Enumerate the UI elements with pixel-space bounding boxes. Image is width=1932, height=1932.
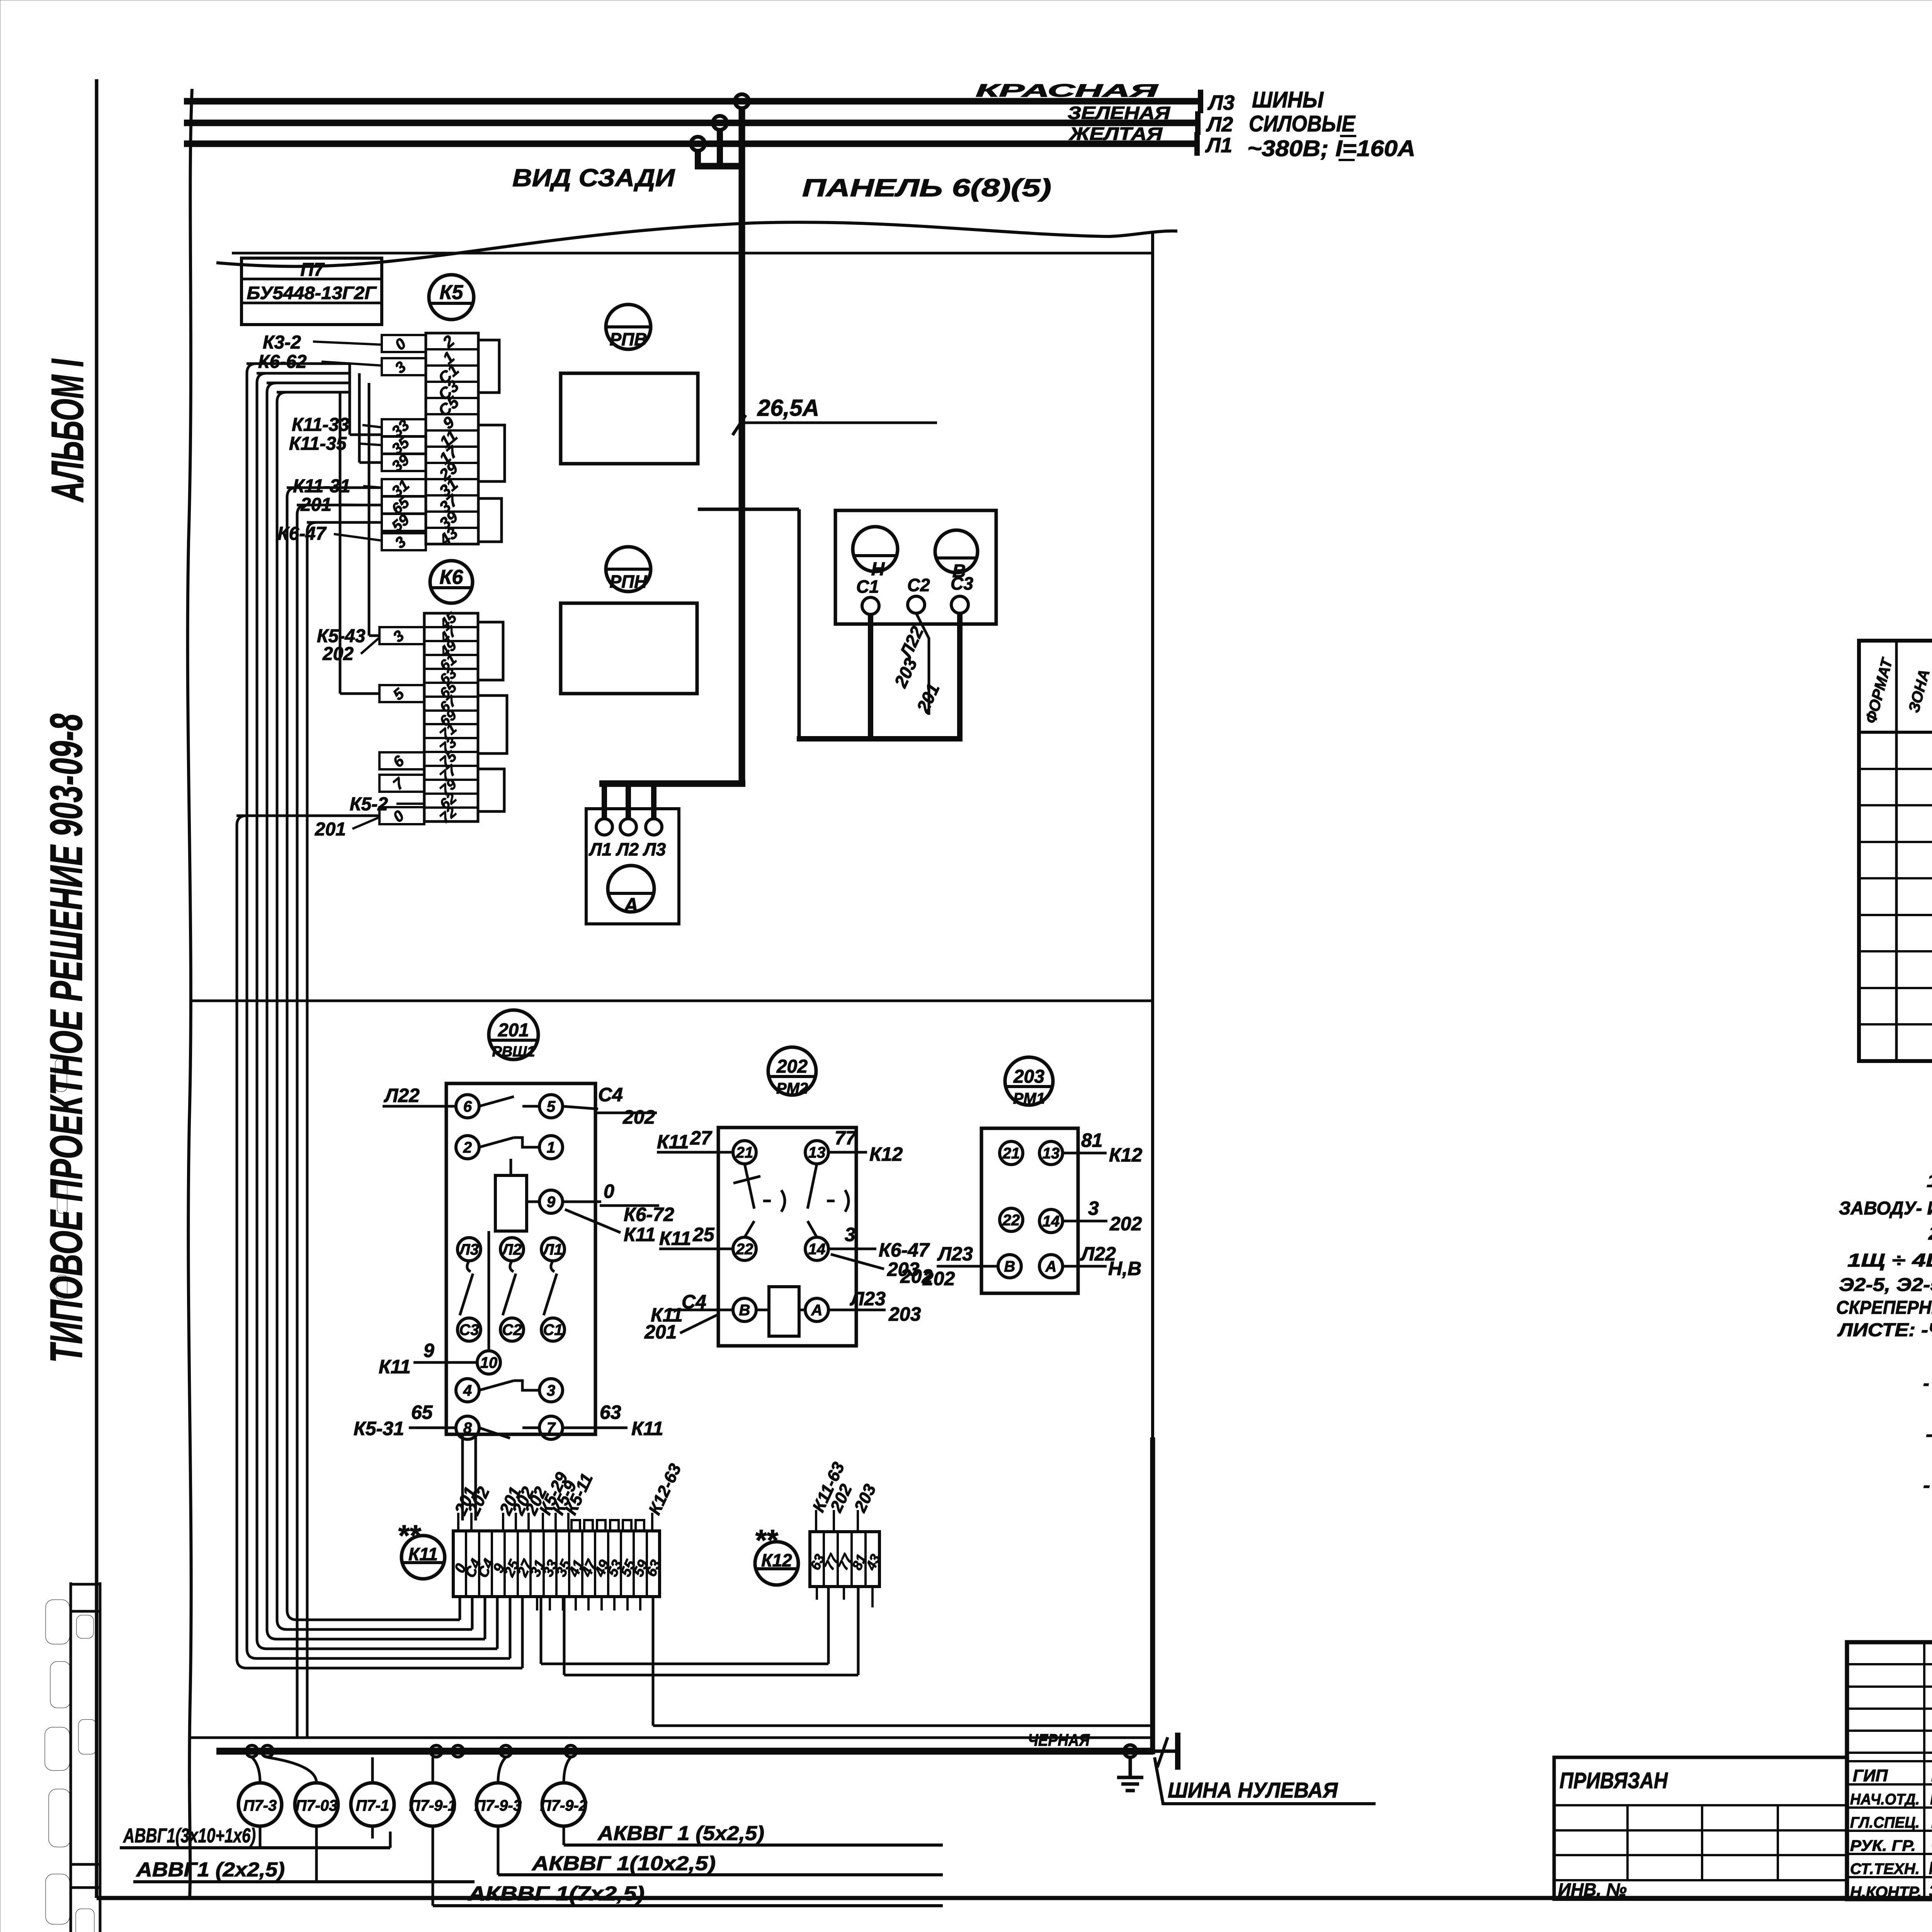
svg-text:81: 81 <box>1081 1129 1103 1151</box>
svg-text:РУК. ГР.: РУК. ГР. <box>1850 1837 1916 1854</box>
panel right edge <box>1151 231 1154 1754</box>
K6 stack labels <box>315 626 424 840</box>
svg-text:РВШ1: РВШ1 <box>492 1044 535 1060</box>
bus L3 <box>184 80 1235 114</box>
RM2 coil <box>769 1287 799 1336</box>
svg-text:14: 14 <box>1043 1213 1060 1230</box>
svg-text:К12-63: К12-63 <box>645 1461 685 1518</box>
null bus label <box>1155 1757 1376 1804</box>
svg-text:Н,В: Н,В <box>1108 1258 1141 1279</box>
svg-text:ГИП: ГИП <box>1853 1766 1888 1785</box>
svg-text:ИНВ. №: ИНВ. № <box>1558 1879 1627 1900</box>
svg-text:К6-72: К6-72 <box>624 1204 674 1225</box>
K11 top stubs <box>571 1520 644 1531</box>
svg-text:К6-62: К6-62 <box>258 352 307 372</box>
svg-text:203: 203 <box>888 1303 921 1325</box>
svg-text:Л1: Л1 <box>1205 134 1232 157</box>
svg-text:С2: С2 <box>907 575 930 595</box>
RVSh1 pins <box>456 1095 565 1439</box>
svg-text:63: 63 <box>600 1401 621 1423</box>
relay RVSh1 ref circle 201 <box>489 1010 538 1060</box>
svg-text:А: А <box>623 894 638 917</box>
stamp small grid <box>1847 1642 1932 1899</box>
stamp outer <box>1847 1642 1932 1899</box>
wires RVSh1 to K11 labels <box>463 1434 476 1520</box>
bundle bottom connectors <box>237 1597 522 1668</box>
parts table grid <box>1859 641 1932 1061</box>
svg-text:7: 7 <box>547 1420 556 1437</box>
panel top line <box>232 252 1153 255</box>
svg-text:ВИД СЗАДИ: ВИД СЗАДИ <box>512 164 675 192</box>
svg-text:К11: К11 <box>657 1131 689 1153</box>
svg-text:А: А <box>1045 1258 1057 1275</box>
svg-text:77: 77 <box>835 1127 857 1149</box>
bus L1 <box>184 124 1232 157</box>
svg-text:3: 3 <box>845 1224 855 1245</box>
svg-text:25: 25 <box>692 1224 715 1245</box>
svg-text:КУКУШКИНА: КУКУШКИНА <box>1929 1858 1932 1878</box>
svg-text:А: А <box>811 1302 823 1319</box>
relay RPV ref circle <box>606 304 651 349</box>
bus annotation <box>1247 87 1415 161</box>
svg-text:2: 2 <box>463 1139 472 1156</box>
svg-text:22: 22 <box>1002 1212 1020 1229</box>
lamp box <box>835 510 996 624</box>
margin text typical project <box>41 714 92 1363</box>
svg-text:ГЛ.СПЕЦ.: ГЛ.СПЕЦ. <box>1850 1814 1920 1831</box>
relay RPN body <box>561 603 697 694</box>
svg-text:АКВВГ 1(10х2,5): АКВВГ 1(10х2,5) <box>531 1852 716 1875</box>
svg-text:Л1: Л1 <box>542 1241 563 1258</box>
binding smudges <box>45 1059 96 1932</box>
feeder drop <box>599 107 745 787</box>
svg-text:К12: К12 <box>761 1550 792 1570</box>
svg-text:2. ЗАДАНИЕ ЗАВОДУ-ИЗГОТОВИТЕЛ: 2. ЗАДАНИЕ ЗАВОДУ-ИЗГОТОВИТЕЛЮ НА ЩИТЫ С… <box>1928 1223 1932 1244</box>
svg-text:Л2: Л2 <box>1206 113 1233 136</box>
svg-text:3: 3 <box>1088 1197 1099 1219</box>
K11 wire from 63 to panel edge <box>653 1597 1151 1726</box>
K12 ref circle <box>754 1524 798 1585</box>
svg-text:203: 203 <box>850 1481 880 1515</box>
K11 short bottom stubs <box>537 1597 653 1611</box>
svg-text:Л23: Л23 <box>937 1243 973 1265</box>
svg-text:3: 3 <box>392 358 409 377</box>
bus L2 <box>184 103 1233 136</box>
svg-text:ЧЕРНАЯ: ЧЕРНАЯ <box>1028 1731 1090 1750</box>
svg-text:9: 9 <box>423 1340 434 1361</box>
svg-text:АВВГ1(3х10+1х6): АВВГ1(3х10+1х6) <box>122 1825 256 1847</box>
svg-text:Э2-5, Э2-5.ВО, Э2-5, Э4 Л.3 А: Э2-5, Э2-5.ВО, Э2-5, Э4 Л.3 АЛЬБОМА. XI)… <box>1839 1275 1932 1295</box>
svg-text:21: 21 <box>736 1144 753 1161</box>
block P7 label box <box>241 258 382 325</box>
svg-text:Н.КОНТР.: Н.КОНТР. <box>1850 1884 1922 1901</box>
RM2 external labels <box>644 1127 955 1343</box>
svg-text:С3: С3 <box>459 1321 479 1338</box>
K11 ref circle <box>397 1519 445 1579</box>
RVSh1 contacts <box>460 1097 557 1438</box>
svg-text:6: 6 <box>463 1098 472 1115</box>
svg-text:ЗАРЕЦКИЙ: ЗАРЕЦКИЙ <box>1929 1881 1932 1901</box>
svg-text:К12: К12 <box>1109 1144 1143 1166</box>
svg-text:К5-31: К5-31 <box>354 1418 404 1439</box>
relay RPV body <box>561 373 698 464</box>
svg-text:ФОРМАТ: ФОРМАТ <box>1862 655 1896 725</box>
svg-text:ЗОНА: ЗОНА <box>1905 668 1932 714</box>
cable drops <box>260 1826 564 1906</box>
lamp C2 leader <box>890 613 944 716</box>
cable label ABBG1 3x10 <box>120 1825 390 1848</box>
svg-text:С1: С1 <box>543 1321 563 1338</box>
svg-text:К6-47: К6-47 <box>879 1239 930 1261</box>
svg-text:БУ5448-13Г2Г: БУ5448-13Г2Г <box>247 283 377 303</box>
svg-text:В: В <box>1004 1258 1015 1275</box>
svg-text:3: 3 <box>392 533 409 552</box>
cable label ABBG1 2x2,5 <box>133 1859 474 1882</box>
ammeter terminals <box>588 787 666 859</box>
svg-text:21: 21 <box>1002 1145 1020 1162</box>
terminal strip K12 <box>807 1532 883 1587</box>
svg-text:К6: К6 <box>440 566 464 588</box>
svg-text:9: 9 <box>547 1194 556 1211</box>
svg-text:65: 65 <box>411 1401 433 1423</box>
svg-text:ШИНЫ: ШИНЫ <box>1252 87 1324 112</box>
svg-text:202: 202 <box>1109 1213 1142 1235</box>
RM2 pins <box>733 1141 828 1321</box>
svg-text:С1: С1 <box>856 577 879 597</box>
svg-text:К11: К11 <box>379 1356 411 1378</box>
svg-text:ПРИВЯЗАН: ПРИВЯЗАН <box>1560 1768 1668 1793</box>
svg-text:~380В; I=160А: ~380В; I=160А <box>1247 136 1415 161</box>
svg-text:ГОХБОЙМ: ГОХБОЙМ <box>1930 1788 1932 1808</box>
svg-text:- ЧЕРТ. Э2-3.ВО, Э2-4.ВО, Э2: - ЧЕРТ. Э2-3.ВО, Э2-4.ВО, Э2-5.ВО - ОБЩИ… <box>1926 1424 1932 1445</box>
ammeter box <box>586 809 679 924</box>
RVSh1 external labels <box>354 1084 674 1439</box>
svg-text:РМ1: РМ1 <box>1013 1090 1045 1107</box>
K12 bottom wires <box>541 1587 872 1675</box>
svg-text:К5-2: К5-2 <box>350 794 388 815</box>
svg-text:ЖЕЛТАЯ: ЖЕЛТАЯ <box>1069 124 1163 144</box>
svg-text:201: 201 <box>644 1321 677 1343</box>
svg-text:6: 6 <box>390 752 408 771</box>
svg-text:202: 202 <box>776 1056 808 1077</box>
svg-text:201: 201 <box>498 1020 529 1041</box>
relay RPN ref circle <box>606 547 651 592</box>
lamp B <box>935 530 978 582</box>
svg-text:СКРЕПЕРНЫХ ПОДЪЕМНИКОВ В СООТВ: СКРЕПЕРНЫХ ПОДЪЕМНИКОВ В СООТВЕТСТВИИ С … <box>1836 1298 1932 1318</box>
svg-text:Л3: Л3 <box>643 839 666 859</box>
svg-text:П7: П7 <box>300 260 325 280</box>
svg-text:К11: К11 <box>408 1544 438 1564</box>
svg-text:С2: С2 <box>502 1321 522 1338</box>
26,5A fuse label <box>733 395 937 435</box>
null bus <box>216 1731 1178 1770</box>
svg-text:Л3: Л3 <box>458 1241 479 1258</box>
K6 terminal stack <box>424 609 478 827</box>
svg-text:К3-2: К3-2 <box>263 332 301 353</box>
parts table header <box>1862 655 1932 725</box>
K6 stack wire boxes <box>379 627 424 826</box>
svg-text:КРАСНАЯ: КРАСНАЯ <box>976 80 1159 100</box>
svg-text:ЗАВОДУ- ИЗГОТОВИТЕЛЮ ДЛЯ ОДНО: ЗАВОДУ- ИЗГОТОВИТЕЛЮ ДЛЯ ОДНОГО СКРЕРЕРН… <box>1839 1198 1932 1219</box>
svg-text:1: 1 <box>547 1139 555 1156</box>
K5 terminal stack <box>426 332 478 549</box>
K5 block outline <box>478 340 505 542</box>
svg-text:Л22: Л22 <box>384 1085 420 1106</box>
svg-text:ШИНА НУЛЕВАЯ: ШИНА НУЛЕВАЯ <box>1168 1778 1338 1802</box>
panel bottom line <box>190 1736 1153 1739</box>
svg-text:В: В <box>739 1302 750 1319</box>
svg-text:СИЛОВЫЕ: СИЛОВЫЕ <box>1249 111 1356 136</box>
K5 stack wire boxes <box>382 335 426 552</box>
svg-text:АЛЬБОМ I: АЛЬБОМ I <box>42 359 93 503</box>
terminal strip K11 <box>451 1531 664 1597</box>
svg-text:202: 202 <box>322 644 354 664</box>
ammeter A <box>608 866 654 917</box>
K5 stack labels <box>258 332 382 544</box>
K6 block outline <box>478 622 507 811</box>
svg-text:1Щ ÷ 4Щ (ЧЕРТ. Э2-3, Э2-3.ВО,: 1Щ ÷ 4Щ (ЧЕРТ. Э2-3, Э2-3.ВО, Э2-3.Э4 Л.… <box>1847 1250 1932 1271</box>
relay RM1 ref circle 203 <box>1005 1057 1053 1107</box>
svg-text:Л2: Л2 <box>501 1241 522 1258</box>
svg-text:К5: К5 <box>440 281 464 304</box>
left wire bundle verticals <box>237 364 317 1738</box>
relay RM2 ref circle 202 <box>768 1047 816 1097</box>
svg-text:202: 202 <box>622 1106 655 1128</box>
svg-text:ПАНЕЛЬ 6(8)(5): ПАНЕЛЬ 6(8)(5) <box>802 174 1051 202</box>
privyazan box <box>1554 1757 1847 1900</box>
svg-text:П7-9-3: П7-9-3 <box>474 1797 522 1814</box>
svg-text:- ЧЕРТ. Э2-3. Э4 Л.3, Э2-4.Э4: - ЧЕРТ. Э2-3. Э4 Л.3, Э2-4.Э4 Л.4, Э2-5.… <box>1923 1475 1932 1496</box>
relay RVSh1 body <box>446 1083 595 1434</box>
RM2 contacts <box>733 1164 849 1310</box>
lamp H <box>853 527 898 580</box>
instructions text <box>1836 1171 1932 1547</box>
lamp wiring <box>698 509 963 739</box>
svg-text:П7-3: П7-3 <box>243 1797 277 1814</box>
svg-text:АКВВГ 1 (5х2,5): АКВВГ 1 (5х2,5) <box>597 1822 764 1845</box>
svg-text:РПВ: РПВ <box>610 329 647 349</box>
svg-text:3: 3 <box>390 627 407 646</box>
svg-text:14: 14 <box>808 1241 826 1258</box>
svg-text:5: 5 <box>390 685 408 704</box>
lamp terminals C1 C2 C3 <box>856 573 973 614</box>
svg-text:201: 201 <box>913 680 944 716</box>
bus tap junction <box>691 94 749 169</box>
sheet left border <box>95 79 99 1898</box>
cable label AKBBG1 7x2,5 <box>433 1883 943 1906</box>
svg-text:203: 203 <box>1013 1066 1044 1087</box>
svg-text:РМ2: РМ2 <box>776 1080 808 1097</box>
svg-text:7: 7 <box>390 774 408 793</box>
binding edge boxes bottom-left <box>71 1582 100 1932</box>
svg-text:К11-35: К11-35 <box>289 434 347 454</box>
svg-text:К11: К11 <box>631 1418 663 1439</box>
cable label AKBBG1 10x2,5 <box>498 1852 943 1875</box>
svg-text:ЗЕЛЕНАЯ: ЗЕЛЕНАЯ <box>1068 103 1171 123</box>
svg-text:ЛИСТЕ: -ЧЕРТ. Э2-3, Э2-5 - П: ЛИСТЕ: -ЧЕРТ. Э2-3, Э2-5 - ПОЗИЦИИ 11 И … <box>1837 1320 1932 1340</box>
stamp signature rows <box>1847 1761 1932 1901</box>
svg-text:3: 3 <box>547 1382 555 1399</box>
svg-text:Л2: Л2 <box>616 839 639 859</box>
machine ref K6 <box>430 561 473 603</box>
view captions <box>512 164 675 192</box>
svg-text:5: 5 <box>547 1098 556 1115</box>
svg-text:СТ.ТЕХН.: СТ.ТЕХН. <box>1850 1861 1920 1878</box>
svg-text:К11: К11 <box>624 1224 656 1245</box>
svg-text:13: 13 <box>1043 1145 1060 1162</box>
panel mid divider <box>190 1000 1153 1002</box>
relay RM1 body <box>981 1128 1078 1293</box>
svg-text:П7-9-1: П7-9-1 <box>409 1797 456 1814</box>
svg-text:26,5А: 26,5А <box>757 395 819 421</box>
svg-text:0: 0 <box>392 335 409 354</box>
svg-text:С4: С4 <box>598 1084 623 1105</box>
machine ref K5 <box>429 275 474 320</box>
K11 incoming labels <box>451 1461 685 1531</box>
P7 cable circles <box>238 1757 282 1826</box>
svg-text:НАЧ.ОТД.: НАЧ.ОТД. <box>1850 1791 1920 1808</box>
bus nodes <box>246 1745 577 1757</box>
K12 incoming labels <box>809 1459 879 1532</box>
svg-text:АВВГ1 (2х2,5): АВВГ1 (2х2,5) <box>136 1859 285 1881</box>
svg-text:К6-47: К6-47 <box>277 524 327 544</box>
svg-text:10: 10 <box>480 1354 498 1371</box>
svg-text:К11: К11 <box>659 1228 691 1249</box>
svg-text:Л1: Л1 <box>588 839 612 859</box>
RM1 external labels <box>900 1129 1143 1287</box>
svg-text:П7-03: П7-03 <box>296 1797 338 1814</box>
svg-text:С3: С3 <box>951 573 973 594</box>
torn edge left of panel <box>188 89 192 1896</box>
svg-text:П7-1: П7-1 <box>356 1797 389 1814</box>
panel top wavy break line <box>216 222 1177 266</box>
margin text Album I <box>42 359 93 503</box>
RVSh1 coil <box>489 1159 527 1351</box>
svg-text:202: 202 <box>900 1265 933 1287</box>
svg-text:РПН: РПН <box>610 571 648 592</box>
cable label AKBBG1 5x2,5 <box>564 1822 943 1845</box>
svg-text:АКВВГ 1(7х2,5): АКВВГ 1(7х2,5) <box>468 1883 645 1905</box>
svg-text:Л23: Л23 <box>850 1288 886 1310</box>
svg-text:0: 0 <box>604 1180 614 1202</box>
ground symbol <box>1117 1745 1143 1791</box>
relay RM2 body <box>718 1128 856 1346</box>
svg-text:0: 0 <box>390 807 407 826</box>
svg-text:4: 4 <box>463 1382 472 1399</box>
svg-text:13: 13 <box>808 1144 826 1161</box>
svg-text:Л3: Л3 <box>1207 91 1235 114</box>
bundle top connectors <box>236 364 382 816</box>
svg-text:201: 201 <box>315 819 346 840</box>
svg-text:- ЧЕРТ. Э2-4 -ПОЗИЦИИ 17 И: - ЧЕРТ. Э2-4 -ПОЗИЦИИ 17 И 19 - ВЫЧЕРКНУ… <box>1923 1373 1932 1394</box>
sheet bottom border <box>97 1896 1932 1900</box>
svg-text:22: 22 <box>736 1241 753 1258</box>
svg-text:1. НА ДАННОМ ЧЕРТЕЖЕ ПРИВЕД: 1. НА ДАННОМ ЧЕРТЕЖЕ ПРИВЕДЕН ПРИМЕР ЗАД… <box>1927 1171 1932 1191</box>
svg-text:ТИПОВОЕ ПРОЕКТНОЕ РЕШЕНИЕ 9: ТИПОВОЕ ПРОЕКТНОЕ РЕШЕНИЕ 903-09-8 <box>41 714 92 1363</box>
svg-text:П7-9-2: П7-9-2 <box>540 1797 587 1814</box>
svg-text:203: 203 <box>890 655 921 691</box>
RM1 pins <box>998 1141 1063 1278</box>
svg-text:27: 27 <box>690 1127 713 1149</box>
svg-text:8: 8 <box>463 1420 472 1437</box>
svg-text:К12: К12 <box>869 1143 903 1165</box>
